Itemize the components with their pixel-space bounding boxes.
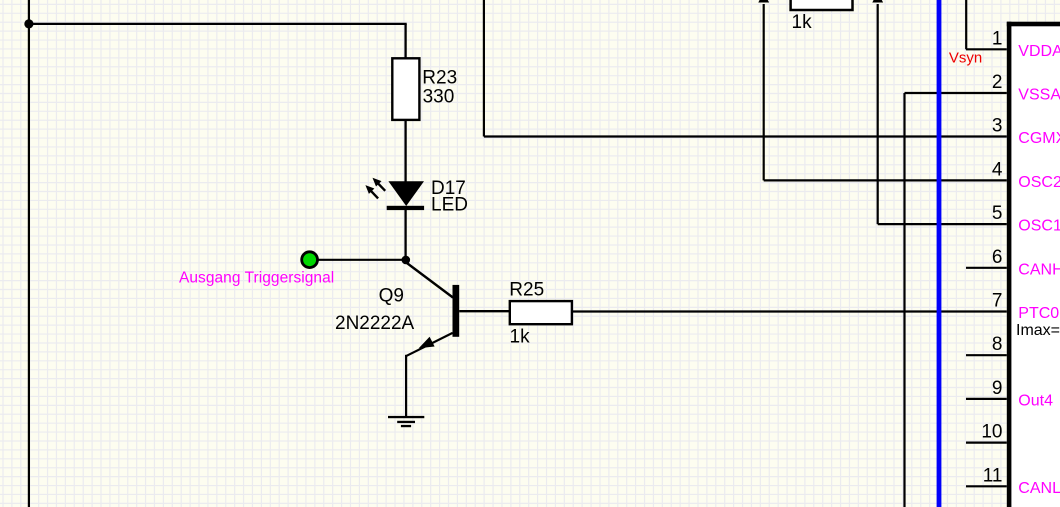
svg-text:Out4: Out4 <box>1018 392 1053 409</box>
svg-text:OSC1: OSC1 <box>1018 218 1060 235</box>
svg-text:VSSA: VSSA <box>1018 87 1060 104</box>
svg-text:R25: R25 <box>509 280 544 301</box>
svg-text:1: 1 <box>992 28 1003 49</box>
svg-text:8: 8 <box>992 334 1003 355</box>
svg-text:CGMXF: CGMXF <box>1018 130 1060 147</box>
svg-text:Q9: Q9 <box>379 285 404 306</box>
svg-text:Vsyn: Vsyn <box>949 49 982 66</box>
svg-text:VDDA: VDDA <box>1018 43 1060 60</box>
svg-text:CANL: CANL <box>1018 480 1060 497</box>
svg-text:OSC2: OSC2 <box>1018 174 1060 191</box>
svg-text:10: 10 <box>981 422 1002 443</box>
svg-text:4: 4 <box>992 159 1003 180</box>
svg-text:7: 7 <box>992 291 1003 312</box>
svg-text:2: 2 <box>992 72 1003 93</box>
svg-text:6: 6 <box>992 247 1003 268</box>
svg-text:9: 9 <box>992 378 1003 399</box>
svg-text:Imax=2: Imax=2 <box>1016 322 1060 339</box>
svg-text:330: 330 <box>423 86 455 107</box>
svg-text:11: 11 <box>983 465 1003 486</box>
svg-text:1k: 1k <box>510 327 531 348</box>
svg-text:Ausgang Triggersignal: Ausgang Triggersignal <box>179 270 334 287</box>
svg-text:PTC0: PTC0 <box>1018 305 1059 322</box>
svg-text:3: 3 <box>992 116 1003 137</box>
svg-text:LED: LED <box>431 195 468 216</box>
svg-text:5: 5 <box>992 203 1003 224</box>
svg-text:2N2222A: 2N2222A <box>335 313 415 334</box>
svg-text:CANH: CANH <box>1018 261 1060 278</box>
svg-text:1k: 1k <box>792 12 813 33</box>
